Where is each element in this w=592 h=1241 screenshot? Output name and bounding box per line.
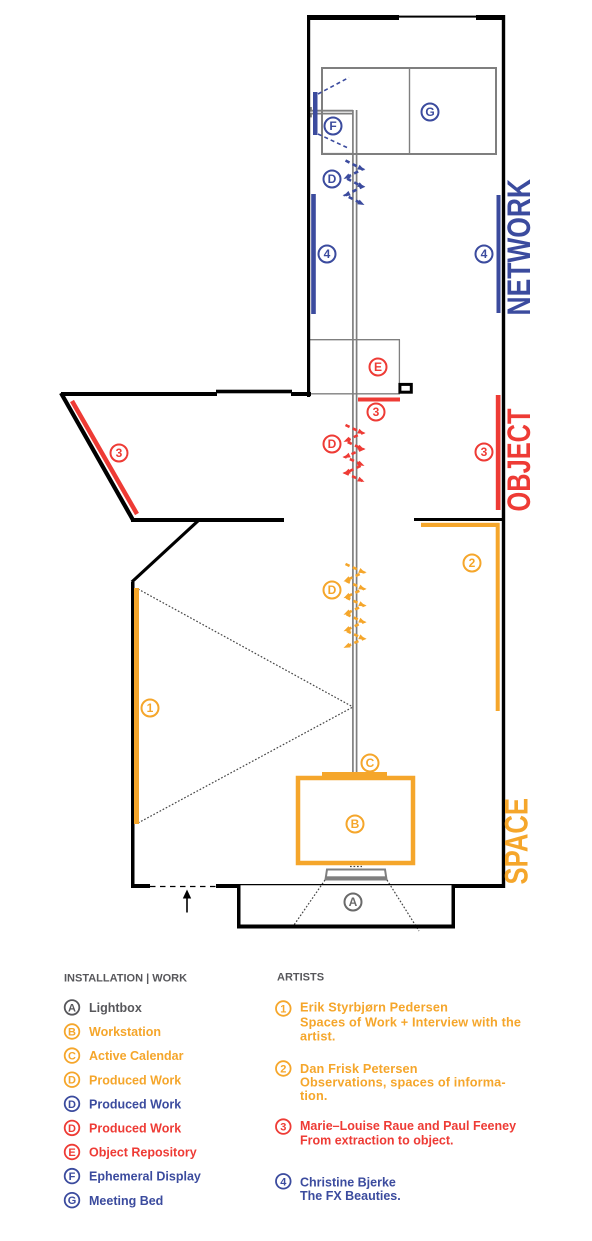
svg-text:tion.: tion. (300, 1089, 328, 1103)
svg-text:3: 3 (373, 405, 380, 419)
svg-text:G: G (68, 1195, 77, 1207)
svg-text:SPACE: SPACE (499, 798, 535, 885)
svg-text:3: 3 (116, 446, 123, 460)
svg-text:Meeting Bed: Meeting Bed (89, 1194, 163, 1208)
svg-text:2: 2 (280, 1064, 286, 1076)
svg-text:From extraction to object.: From extraction to object. (300, 1134, 454, 1148)
svg-text:E: E (374, 360, 382, 374)
svg-text:F: F (69, 1171, 76, 1183)
svg-text:Workstation: Workstation (89, 1025, 161, 1039)
svg-text:F: F (329, 119, 336, 133)
svg-text:4: 4 (280, 1176, 287, 1188)
svg-text:1: 1 (147, 701, 154, 715)
svg-text:INSTALLATION | WORK: INSTALLATION | WORK (64, 973, 187, 985)
svg-text:D: D (328, 172, 337, 186)
svg-text:Object Repository: Object Repository (89, 1146, 197, 1160)
svg-text:Erik Styrbjørn Pedersen: Erik Styrbjørn Pedersen (300, 1001, 448, 1015)
svg-text:NETWORK: NETWORK (501, 179, 537, 316)
svg-text:D: D (68, 1075, 76, 1087)
svg-text:B: B (351, 817, 360, 831)
svg-text:Active Calendar: Active Calendar (89, 1049, 184, 1063)
svg-text:3: 3 (280, 1122, 286, 1134)
svg-text:artist.: artist. (300, 1030, 336, 1044)
svg-text:A: A (349, 895, 358, 909)
svg-text:Christine Bjerke: Christine Bjerke (300, 1175, 396, 1189)
svg-text:4: 4 (324, 247, 331, 261)
svg-text:Marie–Louise Raue and Paul Fee: Marie–Louise Raue and Paul Feeney (300, 1119, 516, 1133)
svg-text:3: 3 (481, 445, 488, 459)
svg-text:Dan Frisk Petersen: Dan Frisk Petersen (300, 1062, 418, 1076)
svg-text:The FX Beauties.: The FX Beauties. (300, 1189, 401, 1203)
svg-text:Lightbox: Lightbox (89, 1001, 142, 1015)
svg-text:A: A (68, 1002, 76, 1014)
svg-text:Produced Work: Produced Work (89, 1073, 181, 1087)
svg-text:E: E (68, 1147, 75, 1159)
svg-text:4: 4 (481, 247, 488, 261)
svg-text:Spaces of Work + Interview wit: Spaces of Work + Interview with the (300, 1016, 521, 1030)
svg-text:2: 2 (469, 556, 476, 570)
svg-text:ARTISTS: ARTISTS (277, 972, 324, 984)
svg-text:1: 1 (280, 1004, 286, 1016)
svg-text:OBJECT: OBJECT (501, 408, 537, 511)
svg-text:D: D (68, 1123, 76, 1135)
svg-text:Observations, spaces of inform: Observations, spaces of informa- (300, 1076, 506, 1090)
svg-text:C: C (366, 756, 375, 770)
svg-text:C: C (68, 1051, 76, 1063)
svg-text:D: D (68, 1099, 76, 1111)
svg-text:Produced Work: Produced Work (89, 1097, 181, 1111)
svg-text:B: B (68, 1027, 76, 1039)
svg-text:D: D (328, 583, 337, 597)
svg-text:D: D (328, 437, 337, 451)
svg-text:Ephemeral Display: Ephemeral Display (89, 1170, 201, 1184)
svg-text:Produced Work: Produced Work (89, 1122, 181, 1136)
svg-text:G: G (425, 105, 434, 119)
